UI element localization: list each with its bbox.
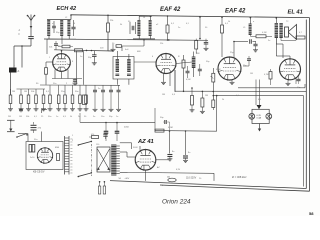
svg-text:50n: 50n [48,116,51,118]
lamp LP1 [249,113,255,119]
wire x80 drop [79,113,81,122]
inductor L8 IF2 [192,57,196,69]
svg-text:3k: 3k [120,24,122,26]
capacitor C3 padder [52,21,56,33]
capacitor C6 cathode [73,79,77,82]
wire heater drop b [259,80,261,106]
transformer T2 secondary [279,23,282,38]
ground GND resistor R19 [70,107,75,111]
wire B+ vertical x216 [216,95,218,131]
wire box leads [18,132,41,142]
svg-text:1M: 1M [250,73,253,75]
transformer TR1 secondary ticks [116,146,119,174]
ground GND7 V4 [286,80,291,86]
capacitor C1 antenna series [28,37,34,46]
tube V3 EAF42 [218,56,242,80]
capacitor C25 pair [104,123,109,142]
capacitor C2 trimmer [71,20,75,36]
svg-text:2n: 2n [178,27,180,29]
inductor L1 antenna coil [47,20,50,36]
svg-text:1M: 1M [24,91,27,93]
wire IF2 leads [193,52,195,78]
svg-text:1M: 1M [162,94,165,96]
capacitor C14 row [93,85,97,107]
ground GND C15 [101,108,106,112]
ground GND3 V2 cathode [161,73,166,84]
wire lamp feed arrow [257,105,262,109]
wire antenna down [10,73,12,95]
svg-text:0,5M: 0,5M [186,79,191,81]
ground GND resistor R20 [78,107,83,111]
svg-text:1n: 1n [56,116,58,118]
inductor L5 osc coil [149,20,152,36]
capacitor C10 IF2 [198,64,202,76]
svg-text:Orion 224: Orion 224 [162,199,191,206]
wire V5 bottom [145,170,147,181]
wire antenna branch [14,45,31,67]
transformer T2 output primary [275,23,278,38]
svg-text:5n: 5n [268,40,270,42]
wire B+ filter line [155,130,217,133]
resistor R28 top [89,134,99,139]
label box caption [33,171,45,174]
svg-text:EL 41: EL 41 [288,10,303,16]
wire drop x76 [75,51,77,85]
label component values 2 [8,17,303,187]
resistor R18 [64,85,67,107]
ground GND5 V3 [230,80,235,84]
capacitor C4 osc [130,20,136,34]
label tube V3 EAF42 [225,9,246,15]
svg-text:0,1M: 0,1M [262,32,267,34]
label page number [309,211,314,216]
wire right border inner [305,20,307,189]
wire input row [42,110,48,114]
wire V1 pins [52,70,82,79]
enclosure tuning indicator box [26,142,63,170]
resistor R14 [35,89,38,107]
svg-text:0,1M: 0,1M [168,127,173,129]
svg-text:58: 58 [309,211,314,216]
ground GND R23 [190,108,195,112]
inductor L3 antenna coil [67,20,70,36]
wire heater line [120,172,214,173]
wire V5 cathode right [156,154,170,160]
resistor R9 speaker [281,36,305,41]
wire V4 anode [276,18,290,58]
ground GND C17 [116,108,121,112]
wire L9 top [250,17,252,24]
resistor R31 padder [116,45,122,48]
label strip notes [70,139,73,175]
tube V1 ECH42 [52,53,70,72]
wire coil top rail [47,14,72,19]
speaker LS1 [285,25,297,40]
label tube V5 AZ41 [137,139,154,145]
label antenna terminals [19,29,21,36]
wire heater drop a [255,80,257,106]
resistor R27 indicator [57,154,60,161]
resistor R16 [49,85,52,107]
svg-text:0,7M: 0,7M [264,74,269,76]
svg-text:1k: 1k [228,21,230,23]
wire V3 grid [204,65,218,67]
ground GND resistor R14 [34,107,39,111]
resistor R26 filter [155,129,164,132]
tube V4 EL41 [279,58,301,80]
svg-text:2n: 2n [78,116,80,118]
wire bottom border inner [110,181,306,189]
capacitor C18 50p [163,120,170,131]
potentiometer R7 volume [211,68,215,100]
ground GND C14 [93,108,98,112]
inductor L7 IF1 secondary [127,59,130,72]
capacitor C24 top [103,133,107,140]
capacitor C7 IF1 [115,74,119,75]
wire mains rail [109,180,111,182]
wire heater turn [213,173,215,181]
wire B+ inner vertical [303,96,305,187]
ground GND C16 [109,108,114,112]
resistor R17 [57,85,60,107]
ground GND4 [204,47,209,51]
ground GND1 [92,61,97,65]
wire IF1 top leads [113,51,129,59]
resistor R4 screen V2 [166,25,169,41]
resistor R19 [71,85,74,107]
wire TR1 to V5 top [120,143,140,152]
resistor R5 diode load [182,55,185,92]
selector cross arrows [97,149,110,171]
svg-text:1n: 1n [204,43,206,45]
ground GND resistor R13 [26,107,31,111]
svg-text:0,3A: 0,3A [257,117,262,120]
inductor L9 det coil [249,24,252,36]
inductor L2 antenna coil [60,20,63,36]
svg-text:ECH 42: ECH 42 [57,6,77,12]
label tube V1 ECH42 [57,6,77,12]
resistor R20 [79,85,82,107]
resistor R21 [85,85,88,107]
capacitor C16 row [109,85,113,107]
resistor R25 [212,95,215,108]
svg-text:EAF 42: EAF 42 [225,9,246,15]
capacitor C27 detector [243,56,251,66]
ground GND resistor R18 [63,107,68,111]
resistor R2 grid [75,49,93,52]
resistor R24 [201,91,204,110]
resistor R15 [42,89,45,107]
label component values [12,20,255,154]
antenna AN1 [27,15,36,37]
ground GND C19 [167,157,172,161]
wire drop x83 [82,51,84,85]
tube V5 AZ41 [135,149,156,171]
svg-text:50n: 50n [297,87,300,89]
capacitor C9 [186,66,190,78]
svg-text:1n: 1n [116,116,118,118]
svg-text:2M: 2M [12,91,15,93]
svg-text:2k: 2k [222,99,224,101]
node antenna terminal block [9,68,20,74]
wire R25 down [212,108,214,111]
label IF frequency note [232,175,247,179]
svg-text:KB-CE-DV: KB-CE-DV [33,171,45,174]
ground GND resistor R11 [8,107,13,111]
svg-text:5k: 5k [70,116,72,118]
wire osc coil bottom [133,36,155,39]
wire V4 anode lead [276,38,290,59]
resistor R22 tall [83,95,87,105]
resistor R29 [195,39,198,54]
wire coil bottoms [47,36,76,39]
wire top B+ rail [71,15,310,18]
capacitor C23 dual [29,145,35,153]
capacitor C28 osc grid [54,41,58,50]
wire V3 anode up [233,42,235,58]
svg-text:2M: 2M [8,116,11,118]
svg-text:1M: 1M [205,95,208,97]
wire x108 to IF1 [108,50,113,52]
wire bus B+ screen [175,70,306,92]
wire V3 screen drop [221,17,223,26]
wire osc link [122,39,144,51]
ground GND resistor R15 [41,107,46,111]
wire bottom border outer [160,185,310,191]
inductor L6 IF1 primary [116,59,119,72]
ground GND C20 [183,159,188,163]
svg-text:5n: 5n [93,116,95,118]
wire right border outer [309,18,311,192]
switch SW2 mains bottom [78,172,93,177]
svg-text:AZ 41: AZ 41 [137,139,154,145]
switch SW1 pickup [16,134,28,138]
wire T2 top [276,17,278,23]
transformer T1 IF can [113,57,134,80]
tube V6 EM4 indicator [37,147,53,164]
ground GND osc [111,44,116,51]
svg-text:2x50: 2x50 [124,127,130,129]
wire osc coil top [139,15,152,20]
label mid note [124,127,130,129]
svg-text:0,5M: 0,5M [216,69,221,71]
svg-text:kf = 468 kHz: kf = 468 kHz [232,175,247,179]
wire x47 bottom drop [46,54,48,57]
capacitor C15 row [101,85,105,107]
capacitor C26 pair [115,123,120,142]
ground GND R24 [200,110,205,114]
fuse F1 [167,175,176,181]
svg-text:110-220V: 110-220V [186,177,197,180]
terminal strip TS1 [65,136,70,175]
svg-text:A: A [18,69,20,73]
resistor R1 screen feed [107,15,110,51]
wire AVC rail [44,39,208,41]
label lamp rating [257,115,262,120]
svg-text:50k: 50k [26,116,29,118]
svg-text:47k: 47k [91,134,94,136]
capacitor C21 input [31,122,42,133]
capacitor C13 [253,42,257,49]
wire V4 cathode parts [296,76,301,84]
wire V1 anode up [61,50,63,54]
resistor R3 osc grid [45,62,53,85]
linkage dashed [91,144,93,176]
wire x200 drop [199,16,201,39]
capacitor C8 IF1 [127,74,131,75]
resistor R8 [250,35,272,38]
svg-text:25k: 25k [160,43,163,45]
capacitor C19 electrolytic [167,130,172,156]
capacitor C20 electrolytic [183,130,188,158]
ground GND6 [253,48,258,52]
resistor R11 [9,89,12,107]
wire bus NFB [238,84,305,88]
svg-text:~40V: ~40V [124,178,130,180]
capacitor C12 coupling [233,39,256,44]
wire V2 top to IF1 [134,61,156,63]
svg-text:50u: 50u [34,139,37,141]
wire V2 screen [167,15,169,25]
ground GND resistor R12 [19,107,24,111]
resistor R23 [191,87,194,108]
resistor R12 [20,89,23,107]
resistor R6 screen V3 [221,25,224,57]
tube V2 EAF42 [156,53,177,74]
lamp LP2 [266,113,272,119]
wire drop x62 [61,39,63,44]
transformer TR1 core winding [111,145,116,176]
inductor L4 osc coil [137,20,140,36]
ground GND2 [73,81,78,85]
wire lamp bottom arrow [258,124,261,132]
capacitor C17 row [117,85,121,107]
svg-text:50n: 50n [53,83,56,85]
resistor R13 [27,89,30,107]
pickup PU1 input [7,120,15,131]
wire AVC bus mid [40,84,120,86]
switch SW2 mains top [78,141,93,146]
ground GND resistor R17 [56,107,61,111]
svg-text:300V: 300V [133,147,138,149]
svg-text:6,3V: 6,3V [176,169,181,171]
wire AVC bus left [17,88,46,90]
svg-text:10n: 10n [101,116,104,118]
label mains voltage [186,177,197,180]
ground GND resistor R16 [48,107,53,111]
ground GND resistor R21 [84,107,89,111]
svg-text:1M: 1M [19,116,22,118]
wire V2 pins down [170,70,175,92]
wire drop x47 grid [46,39,48,54]
wire bus B+ main [213,95,303,97]
capacitor C5 grid bypass [92,51,97,61]
label Orion 224 [162,199,191,206]
resistor R30 osc grid [58,45,73,48]
lamp box [252,109,269,123]
wire V2 det to L8 [176,62,192,64]
label TR1 note [119,178,130,180]
capacitor C22 inrow [19,108,23,113]
transformer TR1 selector box [97,147,110,172]
label tube V2 EAF42 [160,7,181,13]
wire V5 anode taps [120,152,136,157]
wire mid bus [80,122,155,124]
wire grid rail [54,50,113,51]
svg-text:EAF 42: EAF 42 [160,7,181,13]
plug P1 mains [98,181,105,194]
resistor R10 grid V4 [269,69,272,85]
wire x155 drop [154,108,156,131]
label tube V4 EL41 [288,10,303,16]
wire IF1 bottom [117,79,129,85]
capacitor C11 decoupling [204,39,209,47]
